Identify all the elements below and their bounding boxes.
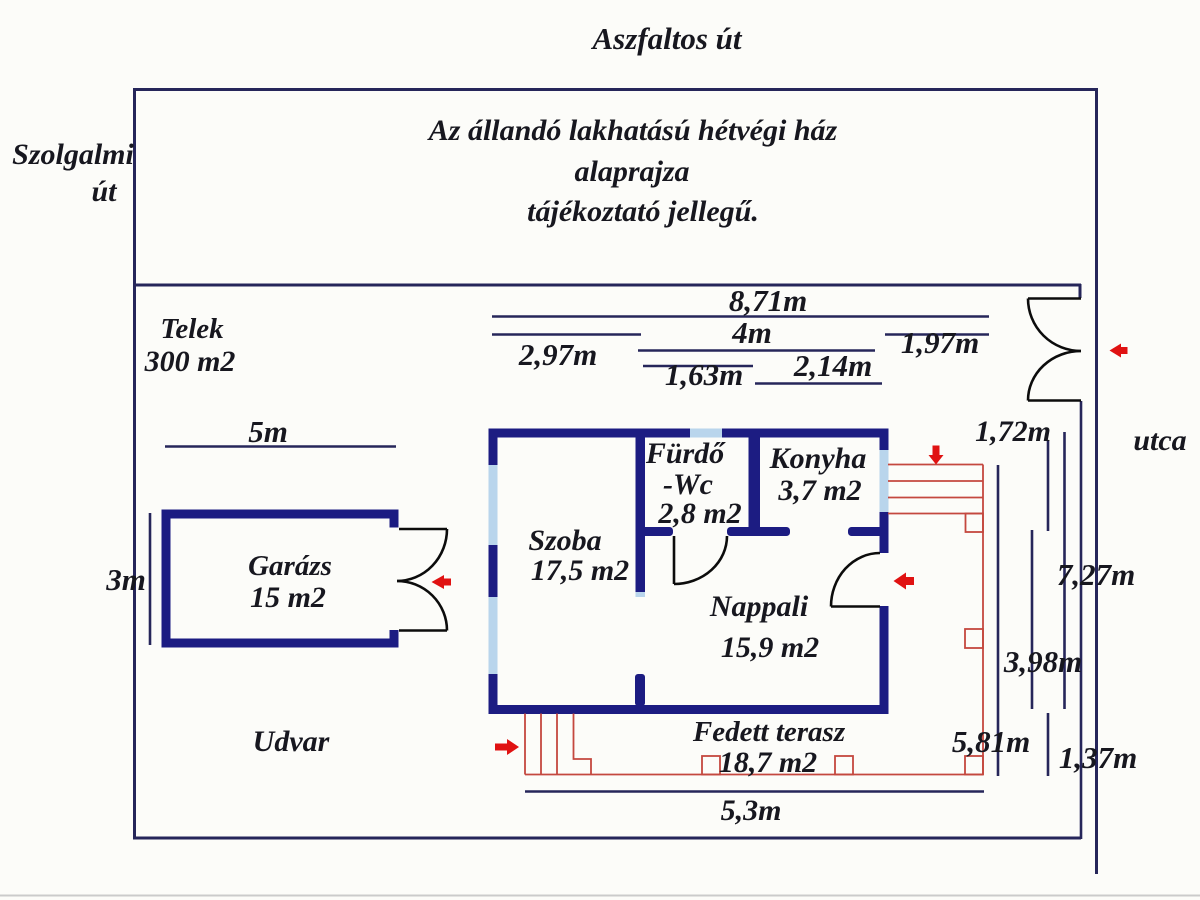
svg-text:2,97m: 2,97m <box>518 337 597 372</box>
red arrow at left steps (pointing right) <box>495 739 519 755</box>
svg-text:2,14m: 2,14m <box>793 348 872 383</box>
red arrow at Konyha steps (pointing down) <box>929 446 944 465</box>
terrace column bottom mid <box>835 756 853 775</box>
garage top wall <box>162 510 399 519</box>
terrace steps right: tread line 3 <box>888 497 983 499</box>
svg-text:17,5 m2: 17,5 m2 <box>531 554 629 587</box>
garage left wall <box>162 510 171 648</box>
dimension line vertical x1064 (7,27m) <box>1063 432 1066 709</box>
svg-text:Garázs: Garázs <box>248 550 332 582</box>
terrace steps right: tread line 4 <box>888 513 983 515</box>
svg-text:8,71m: 8,71m <box>729 283 807 318</box>
dimension line 5m <box>165 445 396 448</box>
house left wall <box>489 429 498 715</box>
svg-text:300 m2: 300 m2 <box>144 345 236 378</box>
svg-text:5,3m: 5,3m <box>721 794 782 827</box>
house right wall upper <box>880 429 889 554</box>
gate top leaf <box>1028 297 1081 300</box>
svg-text:út: út <box>91 175 118 208</box>
plot border left <box>133 88 136 839</box>
dimension line 3m (vertical) <box>149 513 152 645</box>
door Nappali leaf <box>831 605 880 608</box>
svg-text:Telek: Telek <box>160 313 224 345</box>
terrace right edge <box>982 465 984 776</box>
svg-text:7,27m: 7,27m <box>1057 557 1135 592</box>
dimension line left segment (2,97m) <box>492 333 641 336</box>
svg-text:1,37m: 1,37m <box>1059 740 1137 775</box>
window left wall upper <box>489 465 498 545</box>
terrace column top right <box>966 514 984 533</box>
svg-text:3,98m: 3,98m <box>1003 644 1082 679</box>
garage door bottom leaf <box>399 629 447 632</box>
interior wall Szoba glass cap <box>636 592 646 597</box>
window in top wall <box>690 429 722 438</box>
svg-text:18,7 m2: 18,7 m2 <box>719 746 817 779</box>
svg-text:Szolgalmi: Szolgalmi <box>12 138 134 171</box>
dimension line 8,71m <box>492 315 989 318</box>
terrace left steps line 2 <box>540 714 542 775</box>
svg-text:4m: 4m <box>731 315 772 350</box>
header separator line <box>133 284 1081 287</box>
fence line below gate <box>1080 401 1083 839</box>
garage door top arc <box>397 529 447 581</box>
svg-text:alaprajza: alaprajza <box>574 155 689 188</box>
interior wall Furdo-Konyha <box>749 437 761 527</box>
terrace column bottom left <box>702 756 720 775</box>
house right wall lower <box>880 606 889 714</box>
svg-text:Fürdő: Fürdő <box>645 437 726 470</box>
plot border bottom <box>133 837 1081 840</box>
dimension line 5,3m <box>525 790 984 793</box>
svg-text:1,97m: 1,97m <box>901 325 979 360</box>
terrace steps right: tread line 2 <box>888 480 983 482</box>
gate bottom arc <box>1028 351 1081 401</box>
window right wall (Konyha) <box>880 450 889 512</box>
house bottom wall <box>489 705 889 714</box>
svg-text:2,8 m2: 2,8 m2 <box>657 497 741 530</box>
svg-text:Konyha: Konyha <box>769 442 867 475</box>
plot border top <box>133 88 1098 91</box>
dimension line vertical x998 <box>997 465 1000 776</box>
svg-text:utca: utca <box>1133 424 1186 457</box>
gate bottom leaf <box>1028 399 1081 402</box>
red arrow at Nappali door (pointing left) <box>894 573 915 590</box>
door Nappali arc <box>831 553 880 607</box>
faint bottom edge line <box>0 895 1200 897</box>
svg-text:Fedett terasz: Fedett terasz <box>692 716 846 748</box>
dimension line vertical x1032 (3,98m) <box>1031 530 1034 709</box>
garage door bottom arc <box>397 581 447 631</box>
door Furdo arc <box>674 536 727 584</box>
dimension line right segment (1,97m) <box>885 333 989 336</box>
dimension line vertical x1048 upper (1,72m) <box>1047 441 1050 531</box>
house top wall <box>489 429 889 438</box>
svg-text:Udvar: Udvar <box>253 725 330 758</box>
svg-text:Szoba: Szoba <box>528 524 601 557</box>
terrace column bottom right <box>965 756 983 775</box>
garage bottom wall <box>162 639 399 648</box>
svg-text:15 m2: 15 m2 <box>250 581 326 614</box>
red arrow at gate (pointing left) <box>1110 344 1128 358</box>
svg-text:5,81m: 5,81m <box>952 724 1030 759</box>
terrace column mid right <box>965 629 983 648</box>
dimension line 1,63m <box>643 365 753 368</box>
garage right wall top stub <box>390 510 399 528</box>
svg-text:15,9 m2: 15,9 m2 <box>721 631 819 664</box>
terrace bottom edge <box>525 774 983 776</box>
garage right wall bottom stub <box>390 630 399 648</box>
terrace left steps line 4 <box>574 714 592 776</box>
dimension line 2,14m <box>755 382 882 385</box>
door Furdo leaf <box>673 536 676 584</box>
Konyha bottom wall right segment <box>848 527 889 536</box>
Furdo bottom wall left segment <box>636 527 674 536</box>
svg-text:Nappali: Nappali <box>709 590 809 623</box>
garage door top leaf <box>399 528 447 531</box>
window left wall lower <box>489 597 498 674</box>
interior wall Szoba lower stub <box>635 674 645 706</box>
svg-text:3,7 m2: 3,7 m2 <box>777 474 861 507</box>
svg-text:3m: 3m <box>105 562 146 597</box>
svg-text:Az állandó lakhatású hétvégi h: Az állandó lakhatású hétvégi ház <box>427 114 838 147</box>
svg-text:Aszfaltos út: Aszfaltos út <box>590 21 742 56</box>
dimension line 4m <box>638 349 875 352</box>
svg-text:5m: 5m <box>248 414 288 449</box>
terrace steps right: tread line 1 <box>888 464 983 466</box>
Furdo-Konyha bottom wall mid segment <box>727 527 790 536</box>
terrace left steps line 3 <box>556 714 558 775</box>
svg-text:1,72m: 1,72m <box>975 415 1051 448</box>
interior wall Szoba upper <box>636 437 646 592</box>
separator jog at gate <box>1079 284 1082 298</box>
dimension line vertical x1048 lower (1,37m) <box>1047 713 1050 776</box>
plot border right <box>1095 88 1098 874</box>
svg-text:tájékoztató jellegű.: tájékoztató jellegű. <box>527 195 759 228</box>
gate top arc <box>1028 299 1081 352</box>
svg-text:1,63m: 1,63m <box>665 357 743 392</box>
terrace left steps line 1 <box>524 714 526 775</box>
red arrow at garage door (pointing left) <box>432 575 452 589</box>
